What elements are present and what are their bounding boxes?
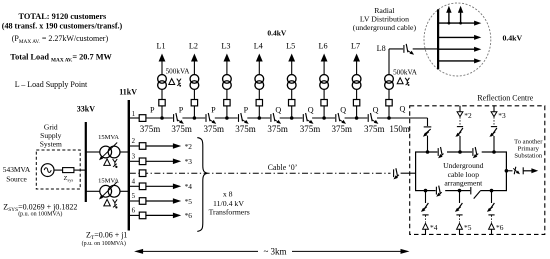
wire L7 transformer up xyxy=(356,60,358,75)
wire *5 down xyxy=(459,191,461,203)
cable 0 dash-dot line xyxy=(130,172,391,174)
svg-text:5: 5 xyxy=(132,193,136,200)
wire L3 transformer up xyxy=(226,60,228,75)
svg-text:Source: Source xyxy=(6,175,27,184)
svg-text:375m: 375m xyxy=(235,124,256,134)
switch S5 on feeder xyxy=(270,117,280,120)
junction L4 xyxy=(258,116,262,120)
breaker tap 2 xyxy=(139,143,146,150)
svg-text:375m: 375m xyxy=(331,124,352,134)
svg-text:1: 1 xyxy=(132,111,135,118)
wire L8 branch xyxy=(388,106,390,118)
feeder arrow *2 xyxy=(146,145,174,147)
svg-text:375m: 375m xyxy=(300,124,321,134)
LV distribution ellipse xyxy=(424,3,491,76)
transformer L8 500kVA xyxy=(385,75,394,84)
svg-text:Underground: Underground xyxy=(443,161,484,170)
svg-text:6: 6 xyxy=(132,208,136,215)
LV feeder arrow 4 xyxy=(438,60,474,62)
junction loop right xyxy=(505,169,509,173)
svg-text:3: 3 xyxy=(132,154,136,161)
3km dimension arrow xyxy=(140,250,258,252)
wire L8 transformer to LV busbar xyxy=(388,49,390,75)
fuse box L6 xyxy=(321,100,327,106)
svg-text:375m: 375m xyxy=(267,124,288,134)
open arrow *4 xyxy=(423,223,429,229)
AC source G1 xyxy=(41,164,54,177)
switch S6 on feeder xyxy=(303,117,313,120)
delta-wye symbol T1 xyxy=(104,159,111,166)
delta-wye symbol L1 xyxy=(169,79,175,85)
wire source to Zsys xyxy=(54,169,63,171)
fuse box L8 xyxy=(386,100,392,106)
svg-text:L7: L7 xyxy=(351,42,360,51)
svg-text:Cable ‘0’: Cable ‘0’ xyxy=(268,163,298,172)
junction loop entry xyxy=(426,150,430,154)
fuse box L3 xyxy=(224,100,230,106)
open arrow *6 xyxy=(489,223,495,229)
wire L4 branch xyxy=(258,106,260,118)
svg-text:*2: *2 xyxy=(185,142,193,151)
wire L1 branch xyxy=(161,106,163,118)
svg-text:33kV: 33kV xyxy=(77,104,95,113)
transformer L1 500kVA xyxy=(158,75,167,84)
wire *4 down xyxy=(425,191,427,203)
arrow load L6 xyxy=(321,54,328,62)
33kV busbar xyxy=(85,122,87,202)
wire T2 to 11kV busbar xyxy=(120,190,129,192)
dotted link *3 xyxy=(493,117,495,126)
breaker tap 6 xyxy=(139,212,146,219)
svg-text:375m: 375m xyxy=(171,124,192,134)
wire *2 stub xyxy=(459,106,461,112)
svg-text:(p.u. on 100MVA): (p.u. on 100MVA) xyxy=(18,211,62,218)
grid supply dashed box xyxy=(36,150,80,189)
feeder arrow *6 xyxy=(146,214,174,216)
feeder arrow *4 xyxy=(146,185,174,187)
svg-text:L8: L8 xyxy=(377,44,386,53)
svg-text:375m: 375m xyxy=(140,124,161,134)
svg-text:*6: *6 xyxy=(496,223,504,232)
wire busbar to feeder CB xyxy=(130,117,139,119)
junction L8 xyxy=(387,116,391,120)
svg-text:~ 3km: ~ 3km xyxy=(263,247,286,257)
LV sub-branch arrow 1 xyxy=(448,22,451,25)
svg-text:0.4kV: 0.4kV xyxy=(502,33,522,42)
LV feeder arrow 3 xyxy=(438,48,474,50)
wire L6 branch xyxy=(323,106,325,118)
svg-text:*5: *5 xyxy=(464,223,472,232)
svg-text:Substation: Substation xyxy=(514,153,543,160)
wire cable 0 to loop xyxy=(401,172,416,174)
wire L4 transformer up xyxy=(258,60,260,75)
fuse box L2 xyxy=(191,100,197,106)
wire L7 branch xyxy=(356,106,358,118)
svg-text:L1: L1 xyxy=(156,42,165,51)
underground loop box xyxy=(416,152,507,191)
main feeder line xyxy=(146,117,428,119)
junction L6 xyxy=(322,116,326,120)
svg-text:500kVA: 500kVA xyxy=(166,67,191,75)
fuse box L7 xyxy=(353,100,359,106)
wire L3 branch xyxy=(226,106,228,118)
wire L5 transformer up xyxy=(291,60,293,75)
svg-text:Q: Q xyxy=(308,105,314,114)
LV sub-branch arrow 2 xyxy=(459,22,462,25)
wire T1 to 11kV busbar xyxy=(120,151,129,153)
svg-text:L6: L6 xyxy=(319,42,328,51)
switch L8-LV xyxy=(403,48,413,51)
junction *4 loop xyxy=(424,189,428,193)
breaker tap 3 xyxy=(139,158,146,165)
arrow load L2 xyxy=(191,54,198,62)
svg-text:P: P xyxy=(244,105,249,114)
svg-text:Q: Q xyxy=(373,105,379,114)
svg-text:Transformers: Transformers xyxy=(209,208,250,217)
svg-text:Q: Q xyxy=(275,105,281,114)
dotted link *6 b xyxy=(491,216,493,223)
svg-text:150m: 150m xyxy=(389,124,410,134)
wire L7 fuse to transformer xyxy=(356,89,358,99)
feeder arrow *3 xyxy=(146,160,174,162)
arrow load L7 xyxy=(353,54,360,62)
open arrow *3 xyxy=(491,112,497,117)
svg-text:x 8: x 8 xyxy=(223,190,233,199)
junction L2 xyxy=(193,116,197,120)
svg-text:*4: *4 xyxy=(430,223,438,232)
wire *6 to border xyxy=(491,229,493,234)
junction L3 xyxy=(225,116,229,120)
svg-text:15MVA: 15MVA xyxy=(98,134,119,141)
svg-text:cable loop: cable loop xyxy=(448,170,480,179)
open arrow *2 xyxy=(457,112,463,117)
transformer L5 500kVA xyxy=(287,75,296,84)
wire tap 2 xyxy=(130,145,139,147)
wire L8 fuse to transformer xyxy=(388,89,390,99)
svg-text:*6: *6 xyxy=(185,211,193,220)
svg-text:L4: L4 xyxy=(254,42,263,51)
wire L4 fuse to transformer xyxy=(258,89,260,99)
svg-text:11kV: 11kV xyxy=(119,88,137,97)
svg-text:TOTAL: 9120 customers: TOTAL: 9120 customers xyxy=(19,12,107,21)
wire tap 3 xyxy=(130,160,139,162)
feeder arrow *5 xyxy=(146,200,174,202)
svg-text:0.4kV: 0.4kV xyxy=(267,28,287,37)
svg-text:Q: Q xyxy=(399,105,405,114)
fuse box L4 xyxy=(256,100,262,106)
svg-text:*2: *2 xyxy=(464,111,472,120)
wire *5 to border xyxy=(459,229,461,234)
transformer L7 500kVA xyxy=(352,75,361,84)
svg-text:*5: *5 xyxy=(185,197,193,206)
junction L5 xyxy=(290,116,294,120)
transformer L6 500kVA xyxy=(320,75,329,84)
fuse box L1 xyxy=(159,100,165,106)
svg-text:(48 transf. x 190 customers/tr: (48 transf. x 190 customers/transf.) xyxy=(2,21,123,30)
wire L6 transformer up xyxy=(323,60,325,75)
transformer L3 500kVA xyxy=(223,75,232,84)
wire L5 branch xyxy=(291,106,293,118)
wire *3 stub xyxy=(493,106,495,112)
switch *2 rc xyxy=(457,126,463,128)
LV feeder arrow 2 xyxy=(438,36,474,38)
transformer T1 15MVA xyxy=(100,146,112,158)
switch *4 rc xyxy=(423,203,429,211)
wire L2 fuse to transformer xyxy=(193,89,195,99)
svg-text:L – Load Supply Point: L – Load Supply Point xyxy=(15,80,88,89)
wire *2 to loop xyxy=(459,136,461,152)
wire feeder entry down xyxy=(427,118,429,152)
feeder circuit breaker xyxy=(139,115,146,122)
svg-text:P: P xyxy=(179,105,184,114)
svg-text:*4: *4 xyxy=(185,182,193,191)
junction *6 loop xyxy=(490,189,494,193)
svg-text:L5: L5 xyxy=(286,42,295,51)
junction L1 xyxy=(160,116,164,120)
breaker cable 0 xyxy=(139,170,146,177)
switch *6 rc xyxy=(489,203,495,211)
svg-text:543MVA: 543MVA xyxy=(3,165,31,174)
wire Zsys to 33kV busbar xyxy=(74,169,85,171)
open switch loop bottom xyxy=(470,189,480,192)
wire L5 fuse to transformer xyxy=(291,89,293,99)
switch loop bottom 1 xyxy=(436,189,446,192)
svg-text:L3: L3 xyxy=(221,42,230,51)
wire *4 to border xyxy=(425,229,427,234)
switch *5 rc xyxy=(457,203,463,211)
wire 33kV bus to T2 xyxy=(85,190,100,192)
svg-text:*3: *3 xyxy=(185,157,193,166)
svg-text:*3: *3 xyxy=(498,111,506,120)
svg-text:System: System xyxy=(40,139,62,148)
wire tap 6 xyxy=(130,214,139,216)
transformer T2 15MVA xyxy=(100,185,112,197)
LV busbar xyxy=(437,9,439,69)
wire L3 fuse to transformer xyxy=(226,89,228,99)
wire loop to substation xyxy=(506,170,512,172)
switch S4 on feeder xyxy=(238,117,248,120)
junction *2 loop xyxy=(458,150,462,154)
dotted link *4 b xyxy=(425,216,427,223)
delta-wye symbol L8 xyxy=(397,78,403,84)
svg-text:2: 2 xyxy=(132,138,136,145)
svg-text:Q: Q xyxy=(340,105,346,114)
switch substation link xyxy=(514,167,516,175)
switch loop top 1 xyxy=(437,151,447,154)
breaker tap 4 xyxy=(139,183,146,190)
fuse box L5 xyxy=(289,100,295,106)
arrow load L4 xyxy=(256,54,263,62)
11kV busbar xyxy=(128,100,130,231)
arrow load L5 xyxy=(288,54,295,62)
wire *6 down xyxy=(491,191,493,203)
svg-text:P: P xyxy=(150,105,155,114)
svg-text:375m: 375m xyxy=(203,124,224,134)
svg-text:arrangement: arrangement xyxy=(444,179,483,188)
svg-text:Primary: Primary xyxy=(518,145,540,152)
transformer L4 500kVA xyxy=(255,75,264,84)
switch loop top 2 xyxy=(472,151,482,154)
switch *3 rc xyxy=(491,126,497,128)
junction *3 loop xyxy=(492,150,496,154)
LV feeder arrow 1 xyxy=(438,22,474,24)
svg-text:(underground cable): (underground cable) xyxy=(353,23,417,32)
switch S2 on feeder xyxy=(173,117,183,120)
brace for feeders xyxy=(197,138,207,232)
wire tap 4 xyxy=(130,185,139,187)
wire L1 fuse to transformer xyxy=(161,89,163,99)
junction L7 xyxy=(355,116,359,120)
reflection centre dashed box xyxy=(410,106,545,235)
dotted link *5 b xyxy=(459,216,461,223)
svg-text:P: P xyxy=(211,105,216,114)
arrow load L3 xyxy=(224,54,231,62)
svg-text:(p.u. on 100MVA): (p.u. on 100MVA) xyxy=(82,240,126,247)
switch S7 on feeder xyxy=(335,117,345,120)
dotted link *2 xyxy=(459,117,461,126)
switch S3 on feeder xyxy=(205,117,215,120)
switch feeder entry xyxy=(426,126,429,136)
arrow to another substation xyxy=(523,170,532,172)
impedance Zsys xyxy=(63,168,74,173)
wire L6 fuse to transformer xyxy=(323,89,325,99)
svg-text:4: 4 xyxy=(132,179,136,186)
wire L2 transformer up xyxy=(193,60,195,75)
switch cable 0 end xyxy=(393,172,403,175)
arrow load L1 xyxy=(159,54,166,62)
wire tap 5 xyxy=(130,200,139,202)
svg-text:500kVA: 500kVA xyxy=(393,68,418,76)
svg-text:L2: L2 xyxy=(189,42,198,51)
switch S8 on feeder xyxy=(367,117,377,120)
wire L1 transformer up xyxy=(161,60,163,75)
breaker tap 5 xyxy=(139,198,146,205)
wire L2 branch xyxy=(193,106,195,118)
junction *5 loop xyxy=(458,189,462,193)
wire *3 to loop xyxy=(493,136,495,152)
wire 33kV bus to T1 xyxy=(85,151,100,153)
transformer L2 500kVA xyxy=(190,75,199,84)
svg-text:375m: 375m xyxy=(364,124,385,134)
open arrow *5 xyxy=(457,223,463,229)
svg-text:Reflection Centre: Reflection Centre xyxy=(477,93,533,102)
delta-wye symbol T2 xyxy=(104,199,111,206)
